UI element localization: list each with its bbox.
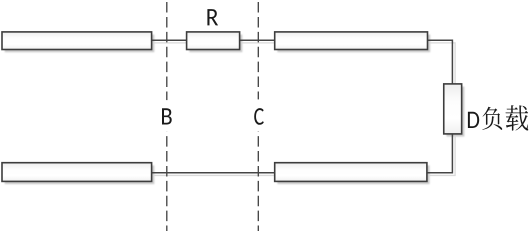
shadow of busbar bottom-left segment (5, 165, 155, 184)
wire shadow: wire bottom-left bar to bottom-right bar (154, 174, 277, 176)
busbar top-right segment (275, 32, 428, 50)
load label D (468, 112, 479, 128)
wire resistor R to top-right bar (240, 39, 275, 41)
shadow of busbar top-right segment (277, 35, 430, 53)
load D body (444, 84, 462, 134)
busbar bottom-left segment (2, 163, 152, 182)
shadow of resistor R body (189, 35, 242, 53)
busbar top-left segment A (2, 32, 152, 50)
node label B (162, 108, 172, 124)
shadow of busbar top-left segment A (5, 35, 155, 53)
wire top-right bar to load D top (428, 40, 453, 84)
label background for node B (155, 100, 178, 132)
load label text 负 (482, 107, 502, 130)
section boundary dashed line B (166, 2, 168, 231)
wire shadow: wire top-right bar to load D top (430, 43, 455, 87)
resistor R body (187, 32, 240, 50)
label background for node C (247, 99, 270, 131)
label R (resistor designator) (207, 9, 218, 25)
wire bottom-left bar to bottom-right bar (152, 172, 275, 174)
shadow of busbar bottom-right segment (277, 165, 429, 184)
section boundary dashed line C (257, 2, 259, 231)
wire top bar to resistor R (152, 39, 187, 41)
node label C (254, 108, 264, 125)
shadow of load D body (446, 87, 464, 137)
wire load D bottom to bottom-right bar (427, 134, 453, 173)
busbar bottom-right segment (275, 163, 427, 182)
wire shadow: wire top bar to resistor R (154, 42, 189, 44)
wire shadow: wire load D bottom to bottom-right bar (430, 137, 456, 176)
load label text 载 (506, 105, 529, 130)
wire shadow: wire resistor R to top-right bar (242, 42, 277, 44)
